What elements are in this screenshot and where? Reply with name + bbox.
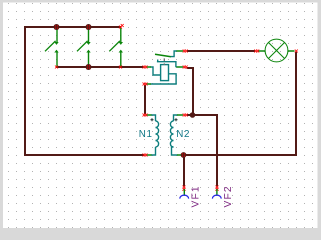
wire: relay right pin to vertical drop <box>187 67 195 116</box>
pin x S3 top <box>119 24 124 29</box>
transformer N1 polarity plus <box>151 118 154 121</box>
junction dot C (bottom rail / S2) <box>86 64 92 70</box>
relay K1 armature bar <box>157 60 183 68</box>
wire: lamp right vertical drop <box>295 52 297 156</box>
relay K1 link dashes <box>163 58 165 65</box>
wire: relay bottom pin down to N1 top pin <box>144 85 146 114</box>
pin x N1 top <box>143 114 148 117</box>
lamp H1 <box>258 39 295 62</box>
relay K1 bottom pin stub <box>147 83 152 85</box>
pin x N2 top <box>183 114 188 117</box>
junction dot B (top rail / S2) <box>86 24 92 30</box>
junction dot D (N2 top) <box>190 112 196 118</box>
label N1 <box>139 129 153 140</box>
wire: bottom rail from N2 junction to lamp drop <box>184 154 297 156</box>
wire: junction to right corner at N2 top level <box>192 114 218 116</box>
transformer winding N1 <box>147 115 159 155</box>
transformer winding N2 <box>170 115 183 155</box>
pin x relay left <box>143 66 148 69</box>
wire: relay contact to lamp <box>187 50 255 52</box>
junction dot E (N2 bottom) <box>181 152 187 158</box>
switch S3 <box>109 28 123 67</box>
svg-text:VF1: VF1 <box>190 185 201 207</box>
svg-text:VF2: VF2 <box>223 185 234 207</box>
pin x lamp left <box>254 50 259 53</box>
wire: N2 bottom junction down to terminal VF1 <box>183 156 185 187</box>
pin x relay bar right <box>183 66 188 69</box>
switch S1 <box>45 28 59 67</box>
svg-text:N1: N1 <box>139 129 153 140</box>
junction dot A (top rail / S1) <box>54 24 60 30</box>
wire: bottom-left rail to N1 bottom pin <box>24 154 144 156</box>
wire: N2 top pin to junction <box>187 114 193 116</box>
wire: right vertical down to terminal VF2 <box>216 114 218 187</box>
switch S2 <box>77 28 91 67</box>
transformer N2 polarity plus <box>175 118 178 121</box>
wire: left vertical of big loop <box>24 26 26 156</box>
relay K1 left pin stub <box>147 66 152 68</box>
label VF2 <box>223 185 234 207</box>
relay K1 coil <box>151 65 177 84</box>
wire: bottom switch rail to relay coil left pin <box>56 66 144 68</box>
pin x relay contact right <box>183 50 188 53</box>
pin x S3 bottom <box>119 66 122 69</box>
svg-text:N2: N2 <box>176 129 190 140</box>
pin x S1 bottom <box>55 66 58 69</box>
terminal VF2 <box>212 186 221 199</box>
pin x lamp right <box>295 50 298 53</box>
label N2 <box>176 129 190 140</box>
pin x relay bottom <box>143 83 148 86</box>
relay K1 contact lever <box>155 51 183 57</box>
label VF1 <box>190 185 201 207</box>
pin x N1 bottom <box>143 154 148 157</box>
wire: top rail <box>24 26 121 28</box>
terminal VF1 <box>180 186 189 199</box>
